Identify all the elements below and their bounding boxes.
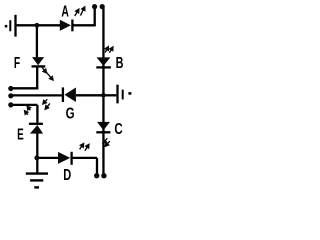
svg-text:B: B bbox=[116, 54, 124, 72]
svg-text:F: F bbox=[14, 54, 20, 72]
svg-text:C: C bbox=[114, 119, 122, 137]
svg-text:A: A bbox=[61, 2, 69, 20]
svg-text:E: E bbox=[17, 125, 24, 143]
svg-text:D: D bbox=[63, 166, 71, 183]
svg-text:G: G bbox=[66, 103, 75, 121]
